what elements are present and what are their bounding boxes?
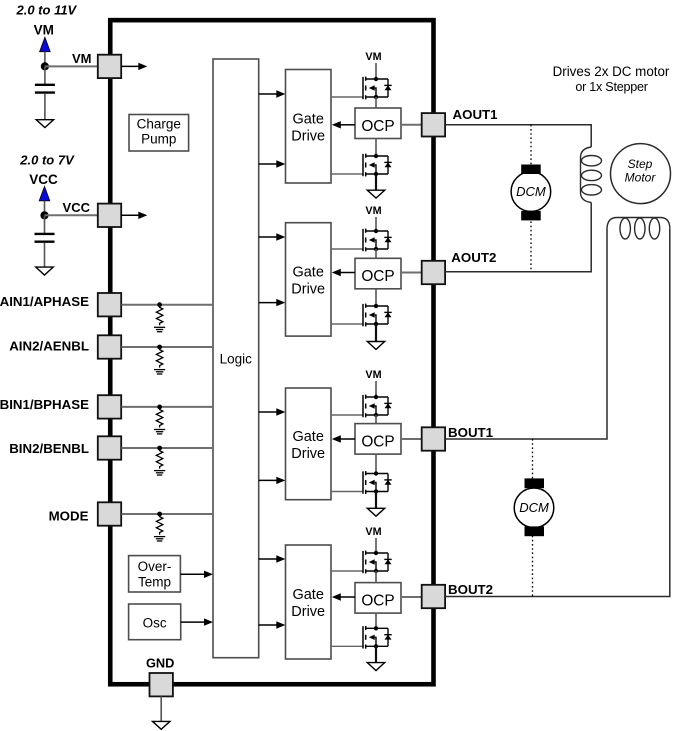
svg-text:AOUT1: AOUT1 bbox=[453, 107, 499, 122]
wire Q2 source to ground bbox=[375, 174, 377, 190]
wire OCP B1 to Q6 drain bbox=[375, 454, 377, 473]
ground channel B2 bbox=[367, 663, 384, 671]
svg-text:2.0 to 11V: 2.0 to 11V bbox=[16, 3, 78, 18]
arrow logic to gate drive A2 (upper) bbox=[259, 236, 277, 238]
arrow logic to gate drive B1 (upper) bbox=[259, 411, 277, 413]
chip outline (device boundary) bbox=[110, 20, 433, 684]
dc motor A brush bottom bbox=[521, 211, 541, 221]
gate drive block B1 bbox=[286, 388, 332, 500]
svg-text:VCC: VCC bbox=[29, 172, 58, 187]
svg-text:Gate: Gate bbox=[292, 429, 323, 445]
ground channel A2 bbox=[367, 342, 384, 350]
wire AIN2 to logic bbox=[122, 346, 214, 348]
ground channel B1 bbox=[367, 508, 384, 516]
svg-text:MODE: MODE bbox=[49, 508, 89, 523]
wire Q5 source to OCP B1 bbox=[375, 415, 377, 424]
inductor winding A (stepper phase A) bbox=[581, 147, 592, 203]
svg-text:Pump: Pump bbox=[141, 132, 176, 147]
resistor BIN1 pulldown bbox=[156, 408, 162, 428]
transistor Q5 high-side B1 bbox=[331, 395, 392, 418]
wire BIN1 to logic bbox=[122, 406, 214, 408]
wire AIN1 to logic bbox=[122, 304, 214, 306]
pin AOUT1 bbox=[422, 113, 445, 136]
wire VM to Q7 drain bbox=[375, 538, 377, 553]
svg-text:Gate: Gate bbox=[292, 111, 323, 127]
wire OCP A1 to AOUT1 pin bbox=[401, 124, 422, 126]
pin AOUT2 bbox=[422, 261, 445, 284]
wire winding A to AOUT2 bbox=[445, 203, 591, 272]
svg-text:Logic: Logic bbox=[220, 352, 253, 367]
resistor BIN2 pulldown bbox=[156, 449, 162, 469]
arrow osc to logic bbox=[181, 621, 205, 623]
wire capacitor to ground bbox=[44, 243, 46, 267]
wire VM node to VM pin bbox=[45, 65, 98, 67]
gate drive block B2 bbox=[286, 545, 332, 659]
wire OCP B2 to Q8 drain bbox=[375, 613, 377, 628]
svg-text:DCM: DCM bbox=[516, 184, 546, 199]
arrow logic to gate drive A1 (upper) bbox=[259, 93, 277, 95]
wire AOUT1 to winding A bbox=[445, 125, 591, 147]
wire Q3 source to OCP A2 bbox=[375, 249, 377, 258]
svg-text:Gate: Gate bbox=[292, 587, 323, 603]
OCP block A2 bbox=[355, 258, 401, 289]
svg-text:VM: VM bbox=[365, 526, 381, 538]
node MODE pulldown junction bbox=[157, 512, 162, 517]
transistor Q4 low-side A2 bbox=[331, 304, 392, 327]
svg-text:VM: VM bbox=[34, 23, 54, 38]
ground channel A1 bbox=[367, 190, 384, 198]
inductor winding B (stepper phase B) bbox=[607, 218, 670, 229]
arrow OCP B2 to gate drive bbox=[340, 596, 355, 598]
wire Q4 source to ground bbox=[375, 324, 377, 342]
svg-text:DCM: DCM bbox=[519, 500, 549, 515]
wire OCP A2 to AOUT2 pin bbox=[401, 272, 422, 274]
svg-text:Drive: Drive bbox=[291, 604, 325, 620]
svg-text:Charge: Charge bbox=[137, 117, 181, 132]
wire GND pin to ground bbox=[160, 696, 162, 721]
pin VCC bbox=[98, 204, 121, 227]
dc motor A brush top bbox=[521, 165, 541, 175]
dc motor B brush top bbox=[525, 478, 545, 488]
dc motor B body bbox=[514, 488, 554, 528]
ground MODE pulldown bbox=[154, 537, 165, 541]
wire BIN2 to logic bbox=[122, 447, 214, 449]
ground (VM bypass) bbox=[36, 120, 53, 128]
arrow logic to gate drive B2 (upper) bbox=[259, 558, 277, 560]
wire OCP B1 to BOUT1 pin bbox=[401, 438, 422, 440]
svg-text:Temp: Temp bbox=[138, 574, 171, 589]
dc motor B brush bottom bbox=[525, 526, 545, 536]
arrow logic to gate drive A1 (lower) bbox=[259, 163, 277, 165]
OCP block A1 bbox=[355, 108, 401, 139]
wire VM to Q3 drain bbox=[375, 217, 377, 231]
arrow OCP B1 to gate drive bbox=[340, 438, 355, 440]
wire VM arrow to node bbox=[44, 52, 46, 67]
svg-text:Drive: Drive bbox=[291, 446, 325, 462]
oscillator block bbox=[129, 604, 181, 640]
transistor Q7 high-side B2 bbox=[331, 551, 392, 574]
arrow logic to gate drive B2 (lower) bbox=[259, 624, 277, 626]
step motor body bbox=[611, 144, 671, 204]
node VM junction dot bbox=[41, 62, 49, 70]
svg-text:BIN1/BPHASE: BIN1/BPHASE bbox=[0, 397, 89, 412]
wire Q6 source to ground bbox=[375, 492, 377, 509]
wire OCP B2 to BOUT2 pin bbox=[401, 596, 422, 598]
logic block bbox=[213, 59, 259, 658]
svg-text:Drive: Drive bbox=[291, 128, 325, 144]
wire MODE to logic bbox=[122, 513, 214, 515]
wire capacitor to ground bbox=[44, 94, 46, 120]
wire VM to Q1 drain bbox=[375, 63, 377, 79]
pin AIN2/AENBL bbox=[98, 335, 121, 358]
arrow VM into chip bbox=[122, 65, 140, 67]
dc motor A body bbox=[511, 172, 551, 212]
pin BIN2/BENBL bbox=[98, 436, 121, 459]
svg-text:OCP: OCP bbox=[361, 268, 394, 285]
OCP block B2 bbox=[355, 583, 401, 614]
svg-text:Motor: Motor bbox=[625, 171, 657, 185]
wire VM to Q5 drain bbox=[375, 381, 377, 397]
ground BIN2 pulldown bbox=[154, 471, 165, 475]
svg-text:VCC: VCC bbox=[63, 200, 91, 215]
node VCC junction dot bbox=[40, 211, 48, 219]
arrow OCP A2 to gate drive bbox=[340, 272, 355, 274]
svg-text:Osc: Osc bbox=[143, 616, 167, 631]
gate drive block A2 bbox=[286, 223, 332, 336]
resistor AIN2 pulldown bbox=[156, 348, 162, 368]
pin BOUT2 bbox=[422, 585, 445, 608]
node BIN2 pulldown junction bbox=[157, 446, 162, 451]
wire VM node down to capacitor bbox=[44, 66, 46, 84]
wire BOUT1 to winding B bbox=[445, 228, 607, 439]
transistor Q3 high-side A2 bbox=[331, 229, 392, 252]
node BIN1 pulldown junction bbox=[157, 405, 162, 410]
wire Q1 source to OCP A1 bbox=[375, 97, 377, 108]
pin MODE bbox=[98, 502, 121, 525]
transistor Q1 high-side A1 bbox=[331, 77, 392, 100]
svg-text:Step: Step bbox=[628, 157, 653, 171]
svg-text:VM: VM bbox=[365, 205, 381, 217]
svg-text:GND: GND bbox=[146, 656, 174, 671]
svg-text:AIN2/AENBL: AIN2/AENBL bbox=[9, 339, 89, 354]
node AIN2 pulldown junction bbox=[157, 345, 162, 350]
svg-text:AOUT2: AOUT2 bbox=[451, 250, 496, 265]
transistor Q8 low-side B2 bbox=[331, 626, 392, 649]
svg-text:BIN2/BENBL: BIN2/BENBL bbox=[9, 441, 89, 456]
dc motor B dotted connection bbox=[532, 439, 534, 597]
svg-text:Gate: Gate bbox=[292, 265, 323, 281]
wire VCC arrow to node bbox=[44, 201, 46, 215]
dc motor A dotted connection bbox=[530, 125, 532, 272]
arrow over-temp to logic bbox=[180, 573, 205, 575]
VCC supply arrow (blue) bbox=[39, 186, 50, 201]
capacitor C2 (VCC bypass) bbox=[35, 234, 55, 242]
pin VM bbox=[98, 55, 121, 78]
pin AIN1/APHASE bbox=[98, 293, 121, 316]
arrow VCC into chip bbox=[122, 214, 140, 216]
pin BOUT1 bbox=[422, 427, 445, 450]
node AIN1 pulldown junction bbox=[157, 302, 162, 307]
capacitor C1 (VM bypass) bbox=[35, 85, 55, 93]
resistor AIN1 pulldown bbox=[156, 306, 162, 326]
svg-text:OCP: OCP bbox=[361, 118, 394, 135]
transistor Q2 low-side A1 bbox=[331, 154, 392, 177]
arrow OCP A1 to gate drive bbox=[340, 124, 355, 126]
arrow logic to gate drive A2 (lower) bbox=[259, 302, 277, 304]
pin BIN1/BPHASE bbox=[98, 395, 121, 418]
svg-text:VM: VM bbox=[365, 369, 381, 381]
resistor MODE pulldown bbox=[156, 515, 162, 535]
ground (VCC bypass) bbox=[36, 267, 53, 275]
ground GND bbox=[153, 721, 170, 729]
over-temp block bbox=[129, 556, 181, 592]
svg-text:Drives 2x DC motor: Drives 2x DC motor bbox=[553, 64, 670, 79]
ground BIN1 pulldown bbox=[154, 430, 165, 434]
charge pump block bbox=[129, 115, 189, 152]
svg-text:Over-: Over- bbox=[138, 559, 172, 574]
svg-text:VM: VM bbox=[365, 51, 381, 63]
svg-text:2.0 to 7V: 2.0 to 7V bbox=[19, 153, 75, 168]
svg-text:BOUT1: BOUT1 bbox=[448, 425, 494, 440]
wire winding B to BOUT2 bbox=[445, 228, 670, 596]
arrow logic to gate drive B1 (lower) bbox=[259, 479, 277, 481]
wire VCC node to VCC pin bbox=[45, 214, 99, 216]
OCP block B1 bbox=[355, 424, 401, 455]
transistor Q6 low-side B1 bbox=[331, 471, 392, 494]
wire VCC node down to capacitor bbox=[44, 215, 46, 233]
wire Q7 source to OCP B2 bbox=[375, 571, 377, 583]
ground AIN2 pulldown bbox=[154, 370, 165, 374]
ground AIN1 pulldown bbox=[154, 327, 165, 331]
wire Q8 source to ground bbox=[375, 646, 377, 662]
svg-text:AIN1/APHASE: AIN1/APHASE bbox=[0, 294, 89, 309]
pin GND bbox=[150, 673, 173, 696]
svg-text:BOUT2: BOUT2 bbox=[448, 582, 493, 597]
svg-text:VM: VM bbox=[72, 51, 92, 66]
gate drive block A1 bbox=[286, 70, 332, 184]
svg-text:Drive: Drive bbox=[291, 282, 325, 298]
wire OCP A1 to Q2 drain bbox=[375, 139, 377, 157]
wire OCP A2 to Q4 drain bbox=[375, 289, 377, 306]
svg-text:or 1x Stepper: or 1x Stepper bbox=[575, 80, 647, 94]
svg-text:OCP: OCP bbox=[361, 593, 394, 610]
svg-text:OCP: OCP bbox=[361, 434, 394, 451]
VM supply arrow (blue) bbox=[40, 37, 51, 52]
